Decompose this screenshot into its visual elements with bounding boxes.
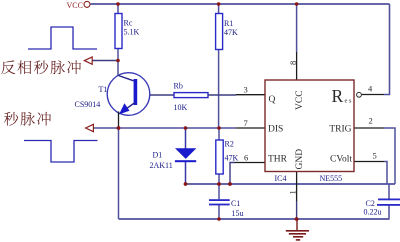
pin 1 GND stub	[296, 172, 298, 202]
junction R1/R2 on DIS rail	[217, 126, 221, 130]
wire R1 branch	[218, 4, 220, 128]
svg-text:es: es	[345, 98, 353, 105]
pin 6 stub	[235, 162, 265, 164]
junction D1 anode on DIS rail	[184, 126, 188, 130]
node: output arrow (second pulse)	[86, 124, 94, 131]
svg-text:2: 2	[369, 116, 373, 126]
wire emitter down to ground rail	[118, 128, 120, 219]
VCC terminal	[67, 1, 91, 10]
waveform: negative pulse	[24, 141, 98, 163]
svg-text:VCC: VCC	[67, 1, 83, 10]
svg-text:VCC: VCC	[295, 90, 305, 110]
pin 4 stub	[362, 94, 384, 96]
pin 2 stub	[354, 127, 384, 129]
junction C1 bottom on ground rail	[217, 217, 221, 221]
svg-text:5.1K: 5.1K	[124, 28, 140, 37]
junction D1 cathode on THR rail	[184, 182, 188, 186]
junction GND pin on ground rail	[295, 217, 299, 221]
transistor T1	[75, 73, 150, 128]
wire GND pin to ground rail	[296, 201, 298, 219]
resistor Rb	[174, 82, 209, 113]
svg-text:C1: C1	[231, 199, 240, 208]
svg-text:CVolt: CVolt	[330, 155, 352, 165]
wire base to Q output net	[150, 94, 236, 96]
capacitor C1	[209, 199, 244, 218]
svg-text:10K: 10K	[174, 103, 188, 112]
junction R1 top on VCC rail	[217, 2, 221, 6]
wire CVolt to mid rail	[384, 162, 387, 185]
svg-text:R: R	[332, 86, 344, 106]
wire right drop to RESET pin4	[384, 4, 390, 95]
svg-text:R2: R2	[225, 140, 234, 149]
svg-text:2AK11: 2AK11	[150, 161, 173, 170]
wire THR/TRIG mid rail	[186, 183, 396, 185]
pin 5 stub	[354, 161, 384, 163]
junction collector node	[116, 59, 120, 63]
svg-text:Rb: Rb	[174, 82, 183, 91]
svg-text:THR: THR	[268, 155, 288, 165]
svg-text:TRIG: TRIG	[329, 125, 351, 135]
wire VCC top rail	[91, 3, 390, 5]
IC IC4 NE555 timer	[265, 80, 361, 183]
svg-text:5: 5	[373, 151, 377, 161]
svg-text:IC4: IC4	[275, 174, 287, 183]
wire DIS rail	[92, 127, 236, 129]
svg-text:47K: 47K	[225, 154, 239, 163]
svg-text:R1: R1	[224, 19, 233, 28]
junction emitter node on DIS rail	[117, 126, 121, 130]
svg-text:CS9014: CS9014	[75, 100, 101, 109]
wire bottom ground rail	[119, 218, 390, 220]
resistor R2	[216, 140, 239, 175]
svg-text:0.22u: 0.22u	[364, 208, 382, 217]
wire inverted-pulse output stub	[92, 60, 118, 62]
svg-text:1: 1	[288, 190, 298, 194]
svg-text:NE555: NE555	[320, 174, 343, 183]
svg-text:D1: D1	[153, 151, 163, 160]
svg-text:Q: Q	[269, 95, 276, 105]
label: second-pulse (Chinese)	[4, 112, 51, 126]
wire D1 branch	[185, 128, 187, 184]
pin 3 stub	[236, 94, 265, 96]
wire Rc branch	[117, 4, 119, 76]
junction pin6 drop on THR rail	[228, 182, 232, 186]
wire C2 branch	[388, 184, 390, 219]
wire TRIG to mid rail	[384, 128, 395, 184]
wire C1 branch	[218, 184, 220, 219]
waveform: positive pulse	[28, 27, 97, 49]
wire R2 branch	[218, 128, 220, 184]
svg-text:7: 7	[244, 118, 248, 128]
svg-text:T1: T1	[99, 85, 108, 94]
resistor R1	[216, 14, 238, 50]
pin 8 stub	[296, 52, 298, 80]
junction R2/C1 on THR rail	[217, 182, 221, 186]
diode D1	[150, 149, 197, 170]
svg-text:6: 6	[244, 153, 248, 163]
junction Rc top on VCC rail	[116, 2, 120, 6]
svg-text:8: 8	[288, 61, 298, 65]
svg-text:15u: 15u	[232, 209, 244, 218]
node: output arrow (inverted pulse)	[84, 57, 92, 64]
resistor Rc	[115, 14, 140, 49]
capacitor C2	[364, 199, 400, 217]
junction pin8 drop on VCC rail	[295, 2, 299, 6]
svg-text:3: 3	[244, 85, 248, 95]
wire pin6 to mid rail	[230, 163, 235, 185]
ground	[286, 219, 309, 240]
wire VCC to pin8	[296, 4, 298, 52]
svg-text:GND: GND	[295, 149, 305, 170]
svg-text:DIS: DIS	[268, 125, 283, 135]
label: inverted second-pulse (Chinese)	[1, 60, 81, 74]
svg-text:47K: 47K	[224, 28, 238, 37]
pin 7 stub	[236, 127, 265, 129]
svg-text:Rc: Rc	[124, 19, 133, 28]
